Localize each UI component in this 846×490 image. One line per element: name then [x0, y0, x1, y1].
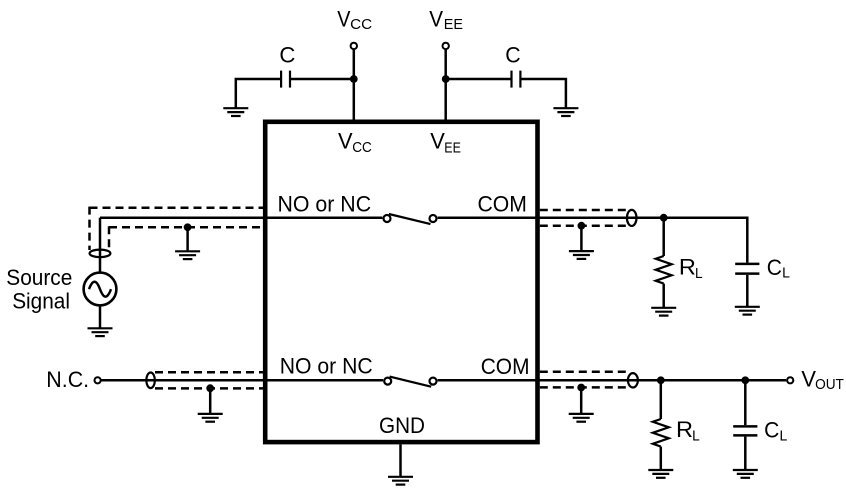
svg-text:CC: CC [352, 140, 372, 156]
value label CL (channel 1) [767, 255, 790, 282]
svg-text:GND: GND [379, 413, 425, 438]
coax shield channel 1 input (dashed) [90, 207, 264, 251]
junction shield ground (channel 2 output) [577, 384, 585, 392]
capacitor CL (channel 2) [733, 426, 757, 435]
shield end ellipse (channel 2 input) [146, 373, 155, 389]
shield end ellipse (channel 2 output) [628, 373, 638, 387]
value label RL (channel 2) [676, 417, 700, 444]
ground (channel 1 RL) [651, 308, 676, 316]
svg-text:EE: EE [444, 17, 463, 33]
wire RL bottom (channel 2) [660, 447, 663, 470]
wire shield to ground (channel 2 output) [580, 388, 583, 414]
svg-text:EE: EE [444, 140, 461, 156]
coax shield channel 1 output (dashed) [540, 210, 627, 226]
wire VCC terminal to box [353, 50, 356, 120]
capacitor C (right bypass) [512, 71, 521, 88]
value label CL (channel 2) [764, 418, 787, 445]
wire shield to ground (channel 1 output) [580, 226, 583, 251]
wire VEE terminal to box [444, 50, 447, 120]
junction shield ground (channel 1 output) [578, 222, 586, 230]
svg-text:N.C.: N.C. [46, 367, 89, 392]
svg-text:L: L [780, 428, 788, 444]
svg-text:COM: COM [478, 192, 527, 217]
label Source Signal [6, 265, 72, 313]
source V1 (AC source) [84, 273, 117, 306]
junction VEE/C [442, 75, 450, 83]
coax shield channel 2 output (dashed) [540, 372, 628, 388]
junction RL (channel 1) [660, 214, 668, 222]
ground (channel 1 output shield) [569, 251, 594, 259]
svg-text:R: R [676, 417, 693, 442]
ground (channel 2 input shield) [198, 414, 223, 422]
shield end ellipse (channel 1 input) [90, 250, 111, 258]
ground (right bypass) [553, 108, 578, 116]
ground (GND pin) [388, 477, 413, 485]
wire channel 2 output (switch to VOUT) [438, 379, 787, 382]
svg-text:V: V [430, 129, 445, 154]
svg-text:V: V [337, 7, 350, 32]
wire source to ground [99, 305, 102, 328]
wire C1 to VCC node [290, 78, 354, 81]
svg-text:C: C [279, 42, 295, 67]
wire CL bottom (channel 1) [746, 275, 749, 307]
wire RL top (channel 1) [662, 218, 665, 256]
ground (channel 1 input shield) [175, 251, 200, 259]
junction VCC/C [350, 75, 358, 83]
svg-text:NO or NC: NO or NC [278, 192, 372, 217]
junction CL (channel 2) [741, 376, 749, 384]
svg-text:V: V [429, 7, 443, 32]
coax shield channel 2 input (dashed) [155, 372, 263, 388]
wire CL bottom (channel 2) [744, 437, 747, 470]
wire VEE node to C2 [446, 78, 512, 81]
wire RL top (channel 2) [660, 380, 663, 419]
wire channel 2 input (N.C. to switch) [101, 379, 383, 382]
svg-text:L: L [782, 266, 790, 282]
switch S2 [384, 377, 436, 387]
wire shield to ground (channel 1 input) [186, 227, 189, 251]
node VCC label [337, 7, 372, 33]
pin label VCC (inside box) [338, 129, 372, 156]
node VEE label [429, 7, 463, 33]
wire channel 1 input (source to switch) [100, 216, 382, 219]
capacitor CL (channel 1) [735, 264, 759, 274]
wire RL bottom (channel 1) [662, 284, 665, 308]
capacitor C (left bypass) [281, 71, 290, 88]
terminal VOUT [787, 377, 793, 383]
IC box U1 [265, 122, 537, 442]
svg-text:OUT: OUT [815, 377, 844, 393]
svg-text:V: V [338, 129, 353, 154]
ground (channel 1 CL) [735, 307, 760, 315]
svg-text:C: C [767, 255, 782, 280]
value label RL (channel 1) [679, 255, 703, 282]
node VOUT label [801, 367, 844, 393]
ground (channel 2 RL) [648, 470, 673, 478]
switch S1 [384, 214, 437, 224]
wire shield to ground (channel 2 input) [209, 388, 212, 414]
svg-text:CC: CC [350, 17, 372, 33]
svg-text:COM: COM [481, 354, 530, 379]
svg-text:NO or NC: NO or NC [280, 354, 373, 379]
svg-text:R: R [679, 255, 696, 280]
wire GND pin to ground [399, 444, 402, 476]
terminal N.C. [95, 377, 101, 383]
svg-text:L: L [692, 429, 700, 445]
ground (source) [88, 328, 113, 336]
wire CL top (channel 2) [744, 380, 747, 425]
ground (channel 2 CL) [733, 470, 758, 478]
svg-text:C: C [764, 418, 779, 443]
junction RL (channel 2) [657, 376, 665, 384]
terminal VEE [443, 43, 449, 49]
svg-text:L: L [695, 266, 703, 282]
svg-text:Source: Source [6, 265, 72, 290]
svg-text:V: V [801, 367, 816, 392]
resistor RL (channel 2) [653, 419, 669, 447]
ground (channel 2 output shield) [569, 414, 594, 422]
wire C1 to ground [236, 79, 281, 108]
junction shield ground (channel 2 input) [206, 384, 214, 392]
ground (left bypass) [223, 108, 248, 116]
svg-text:C: C [505, 42, 521, 67]
resistor RL (channel 1) [656, 256, 672, 284]
svg-text:Signal: Signal [12, 288, 70, 313]
shield end ellipse (channel 1 output) [627, 210, 637, 226]
terminal VCC [351, 43, 357, 49]
junction shield ground (channel 1 input) [184, 223, 192, 231]
wire source to channel 1 input [99, 218, 102, 273]
wire channel 1 output (switch to loads) [438, 218, 748, 263]
wire C2 to ground [520, 79, 566, 108]
pin label VEE (inside box) [430, 129, 461, 157]
